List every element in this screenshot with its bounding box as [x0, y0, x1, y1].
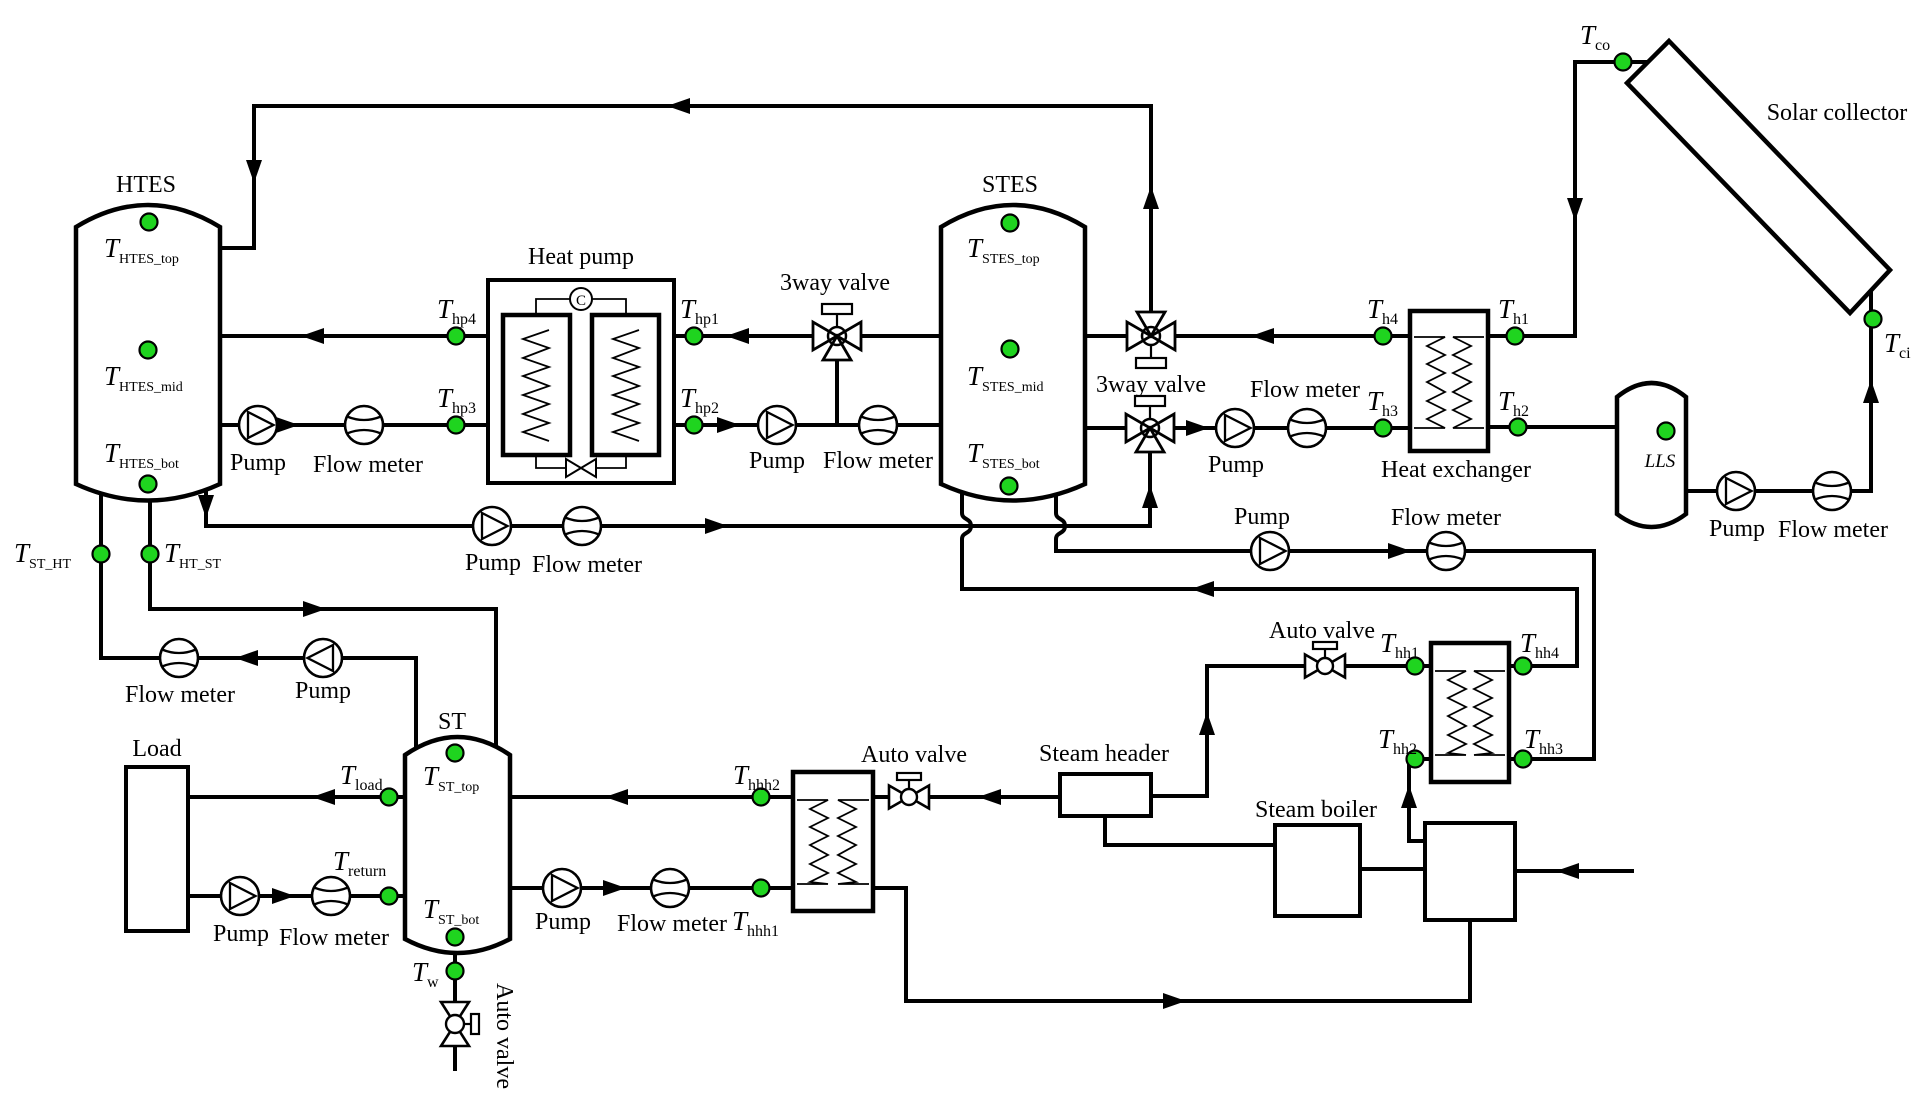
node T_ST_bot	[447, 929, 464, 946]
solar collector panel	[1627, 41, 1890, 313]
wire top discharge loop STES to HTES top	[220, 106, 1151, 312]
node T_HTES_top	[141, 214, 158, 231]
wire LLS to solar collector inlet	[1686, 290, 1871, 491]
arrow left on water inlet	[1556, 863, 1579, 879]
svg-text:C: C	[576, 293, 586, 309]
wire STES bottom left stub to Thh4 (line C)	[962, 492, 1577, 666]
node T_hh4	[1515, 658, 1532, 675]
arrow right on HT-ST line	[303, 601, 326, 617]
pump on Th3 line	[1216, 409, 1254, 447]
wire boiler boxes connector	[1360, 867, 1425, 871]
hhh HX left coil	[797, 800, 828, 884]
flow meter on Th3 line	[1288, 409, 1326, 447]
wire boiler water inlet	[1515, 869, 1634, 873]
auto valve (hhh HX)	[889, 773, 929, 809]
node T_return	[381, 888, 398, 905]
3way valve (heat pump loop)	[813, 304, 861, 360]
svg-text:Pump: Pump	[295, 678, 351, 704]
wire heat pump to STES lower line	[674, 423, 941, 427]
node T_ST_top	[447, 745, 464, 762]
pump on line A	[473, 507, 511, 545]
svg-text:ST: ST	[438, 709, 466, 735]
svg-text:Heat pump: Heat pump	[528, 244, 634, 270]
arrow left on hp1 line	[726, 328, 749, 344]
wire ST top to Thhh2	[510, 795, 793, 799]
node T_load	[381, 789, 398, 806]
svg-text:Solar collector: Solar collector	[1767, 100, 1908, 126]
flow meter on line B	[1427, 532, 1465, 570]
node T_HT_ST	[142, 546, 159, 563]
3way valve upper (STES top)	[1127, 312, 1175, 368]
arrow left on steam supply	[978, 789, 1001, 805]
auto valve (drain, vertical)	[441, 1002, 469, 1046]
steam header box	[1060, 774, 1151, 816]
node T_hh1	[1407, 658, 1424, 675]
node T_STES_mid	[1002, 341, 1019, 358]
arrow up on solar feed	[1863, 380, 1879, 403]
svg-text:Pump: Pump	[1208, 452, 1264, 478]
svg-text:Pump: Pump	[1709, 516, 1765, 542]
wire Th1 to solar collector	[1488, 62, 1648, 336]
arrow up on Thh2 riser	[1401, 785, 1417, 808]
wire heat pump to STES top line	[674, 334, 941, 338]
hh HX right coil	[1474, 671, 1505, 755]
steam boiler right box	[1425, 823, 1515, 920]
svg-text:Flow meter: Flow meter	[617, 911, 727, 937]
node T_ci	[1865, 311, 1882, 328]
arrow right on line B	[1388, 543, 1411, 559]
node T_hhh2	[753, 789, 770, 806]
node LLS sensor	[1658, 423, 1675, 440]
hh heat exchanger body	[1431, 643, 1509, 782]
wire steam header to boiler	[1105, 816, 1275, 845]
arrow left on load supply	[312, 789, 335, 805]
svg-text:Flow meter: Flow meter	[1391, 505, 1501, 531]
arrow right after HTES pump	[276, 417, 299, 433]
tank LLS	[1617, 383, 1686, 527]
pump on hp2 line	[758, 406, 796, 444]
arrow up on header riser	[1199, 712, 1215, 735]
svg-text:Pump: Pump	[749, 448, 805, 474]
node T_w	[447, 963, 464, 980]
svg-text:Steam boiler: Steam boiler	[1255, 797, 1377, 823]
svg-text:Heat exchanger: Heat exchanger	[1381, 457, 1531, 483]
wire Load supply line	[188, 795, 405, 799]
tank STES	[941, 205, 1085, 501]
arrow down on HTES bottom outlet	[198, 495, 214, 518]
arrow left on line C	[1191, 581, 1214, 597]
arrow down on solar return	[1567, 198, 1583, 221]
pump on LLS line	[1717, 472, 1755, 510]
heat exchanger right coil	[1453, 337, 1484, 428]
wire ST to HTES bottom (return line)	[101, 493, 416, 748]
heat pump expansion valve link lines	[536, 455, 626, 468]
arrow right on line A	[705, 518, 728, 534]
svg-text:Pump: Pump	[465, 550, 521, 576]
wire below drain valve	[453, 1046, 457, 1071]
arrow right on boiler feed loop	[1163, 993, 1186, 1009]
svg-text:Auto valve: Auto valve	[861, 742, 967, 768]
auto valve (hh HX)	[1305, 642, 1345, 678]
flow meter on hp2 line	[859, 406, 897, 444]
node T_hp2	[686, 417, 703, 434]
node T_h1	[1507, 328, 1524, 345]
svg-text:Pump: Pump	[213, 921, 269, 947]
node T_hh2	[1407, 751, 1424, 768]
heat pump evaporator coil	[523, 330, 549, 441]
arrow up on riser to top line	[1143, 186, 1159, 209]
node T_HTES_mid	[140, 342, 157, 359]
heat pump expansion valve	[566, 459, 596, 477]
wire steam header to Thh1	[1151, 666, 1431, 796]
svg-text:Pump: Pump	[1234, 504, 1290, 530]
wire hhh HX to steam header	[873, 795, 1060, 799]
wire STES bottom right stub to Thh3 (line B)	[1056, 494, 1594, 759]
pump on load return	[221, 877, 259, 915]
arrow right on hp2 line	[717, 417, 740, 433]
svg-text:Flow meter: Flow meter	[125, 682, 235, 708]
heat pump outer box	[488, 280, 674, 483]
heat pump condenser coil	[613, 330, 639, 441]
hhh HX right coil	[838, 800, 869, 884]
svg-text:Load: Load	[132, 736, 181, 762]
wire HTES bottom to lower 3way valve (line A)	[206, 452, 1150, 526]
wire HTES bottom to ST (feed line)	[150, 500, 496, 747]
flow meter on Thhh1 line	[651, 869, 689, 907]
3way valve lower (STES bottom)	[1126, 396, 1174, 452]
steam boiler left box	[1275, 825, 1360, 916]
node T_hh3	[1515, 751, 1532, 768]
wire ST bottom to Thhh1	[510, 886, 793, 890]
svg-text:Flow meter: Flow meter	[532, 552, 642, 578]
arrow right on ST bottom line	[603, 880, 626, 896]
node T_h4	[1375, 328, 1392, 345]
wire Thh2 to boiler	[1409, 759, 1431, 841]
arrow right on load return	[272, 888, 295, 904]
svg-text:Flow meter: Flow meter	[313, 452, 423, 478]
flow meter on ST-HT line	[160, 639, 198, 677]
flow meter on line A	[563, 507, 601, 545]
pump on line B	[1251, 532, 1289, 570]
node T_STES_top	[1002, 215, 1019, 232]
wire 3way valve riser to lower line	[835, 358, 839, 425]
wire HTES lower to heat pump	[220, 423, 488, 427]
node T_hp4	[448, 328, 465, 345]
svg-text:Pump: Pump	[535, 909, 591, 935]
svg-text:Auto valve: Auto valve	[1269, 618, 1375, 644]
arrow left on ST-HT line	[235, 650, 258, 666]
arrow down into HTES top	[246, 160, 262, 183]
heat pump condenser vessel	[592, 315, 659, 455]
svg-text:Steam header: Steam header	[1039, 741, 1169, 767]
node T_hhh1	[753, 880, 770, 897]
arrow right on Th3 line	[1186, 420, 1209, 436]
svg-text:3way valve: 3way valve	[780, 270, 890, 296]
svg-text:3way valve: 3way valve	[1096, 372, 1206, 398]
node T_ST_HT	[93, 546, 110, 563]
arrow up into lower 3way valve	[1142, 485, 1158, 508]
heat pump compressor link lines	[536, 299, 626, 315]
flow meter on HTES lower line	[345, 406, 383, 444]
pump on Thhh1 line	[543, 869, 581, 907]
heat exchanger body	[1410, 311, 1488, 451]
flow meter on LLS line	[1813, 472, 1851, 510]
wire hhh HX bottom loop to boiler	[873, 888, 1470, 1001]
wire Load return line	[188, 894, 405, 898]
Load box	[126, 767, 188, 931]
arrow left on ST top line	[605, 789, 628, 805]
arrow left on HTES mid line	[301, 328, 324, 344]
wire Th2 to LLS	[1488, 425, 1617, 429]
flow meter on load return	[312, 877, 350, 915]
wire STES to heat exchanger top line	[1085, 334, 1410, 338]
node T_hp3	[448, 417, 465, 434]
tank ST	[405, 737, 510, 953]
hhh heat exchanger body	[793, 772, 873, 911]
svg-text:Pump: Pump	[230, 450, 286, 476]
hh HX left coil	[1435, 671, 1466, 755]
node T_h2	[1510, 419, 1527, 436]
node T_h3	[1375, 420, 1392, 437]
wire HTES mid to heat pump	[220, 334, 488, 338]
svg-text:Flow meter: Flow meter	[279, 925, 389, 951]
heat pump evaporator vessel	[503, 315, 570, 455]
svg-text:STES: STES	[982, 172, 1038, 198]
node T_STES_bot	[1001, 478, 1018, 495]
svg-text:HTES: HTES	[116, 172, 176, 198]
tank HTES	[76, 205, 220, 501]
heat exchanger left coil	[1414, 337, 1445, 428]
svg-text:Flow meter: Flow meter	[823, 448, 933, 474]
arrow left on Th4 line	[1251, 328, 1274, 344]
pump on HTES lower line	[239, 406, 277, 444]
pump on ST-HT line	[304, 639, 342, 677]
node T_hp1	[686, 328, 703, 345]
wire STES to heat exchanger lower line	[1085, 426, 1410, 430]
node T_HTES_bot	[140, 476, 157, 493]
svg-text:Flow meter: Flow meter	[1250, 377, 1360, 403]
wire ST drain	[453, 953, 457, 1003]
svg-text:Flow meter: Flow meter	[1778, 517, 1888, 543]
svg-text:LLS: LLS	[1644, 451, 1676, 472]
svg-text:Auto valve: Auto valve	[491, 983, 517, 1089]
arrow left on top line	[667, 98, 690, 114]
heat pump compressor circle C	[570, 288, 592, 310]
node T_co	[1615, 54, 1632, 71]
